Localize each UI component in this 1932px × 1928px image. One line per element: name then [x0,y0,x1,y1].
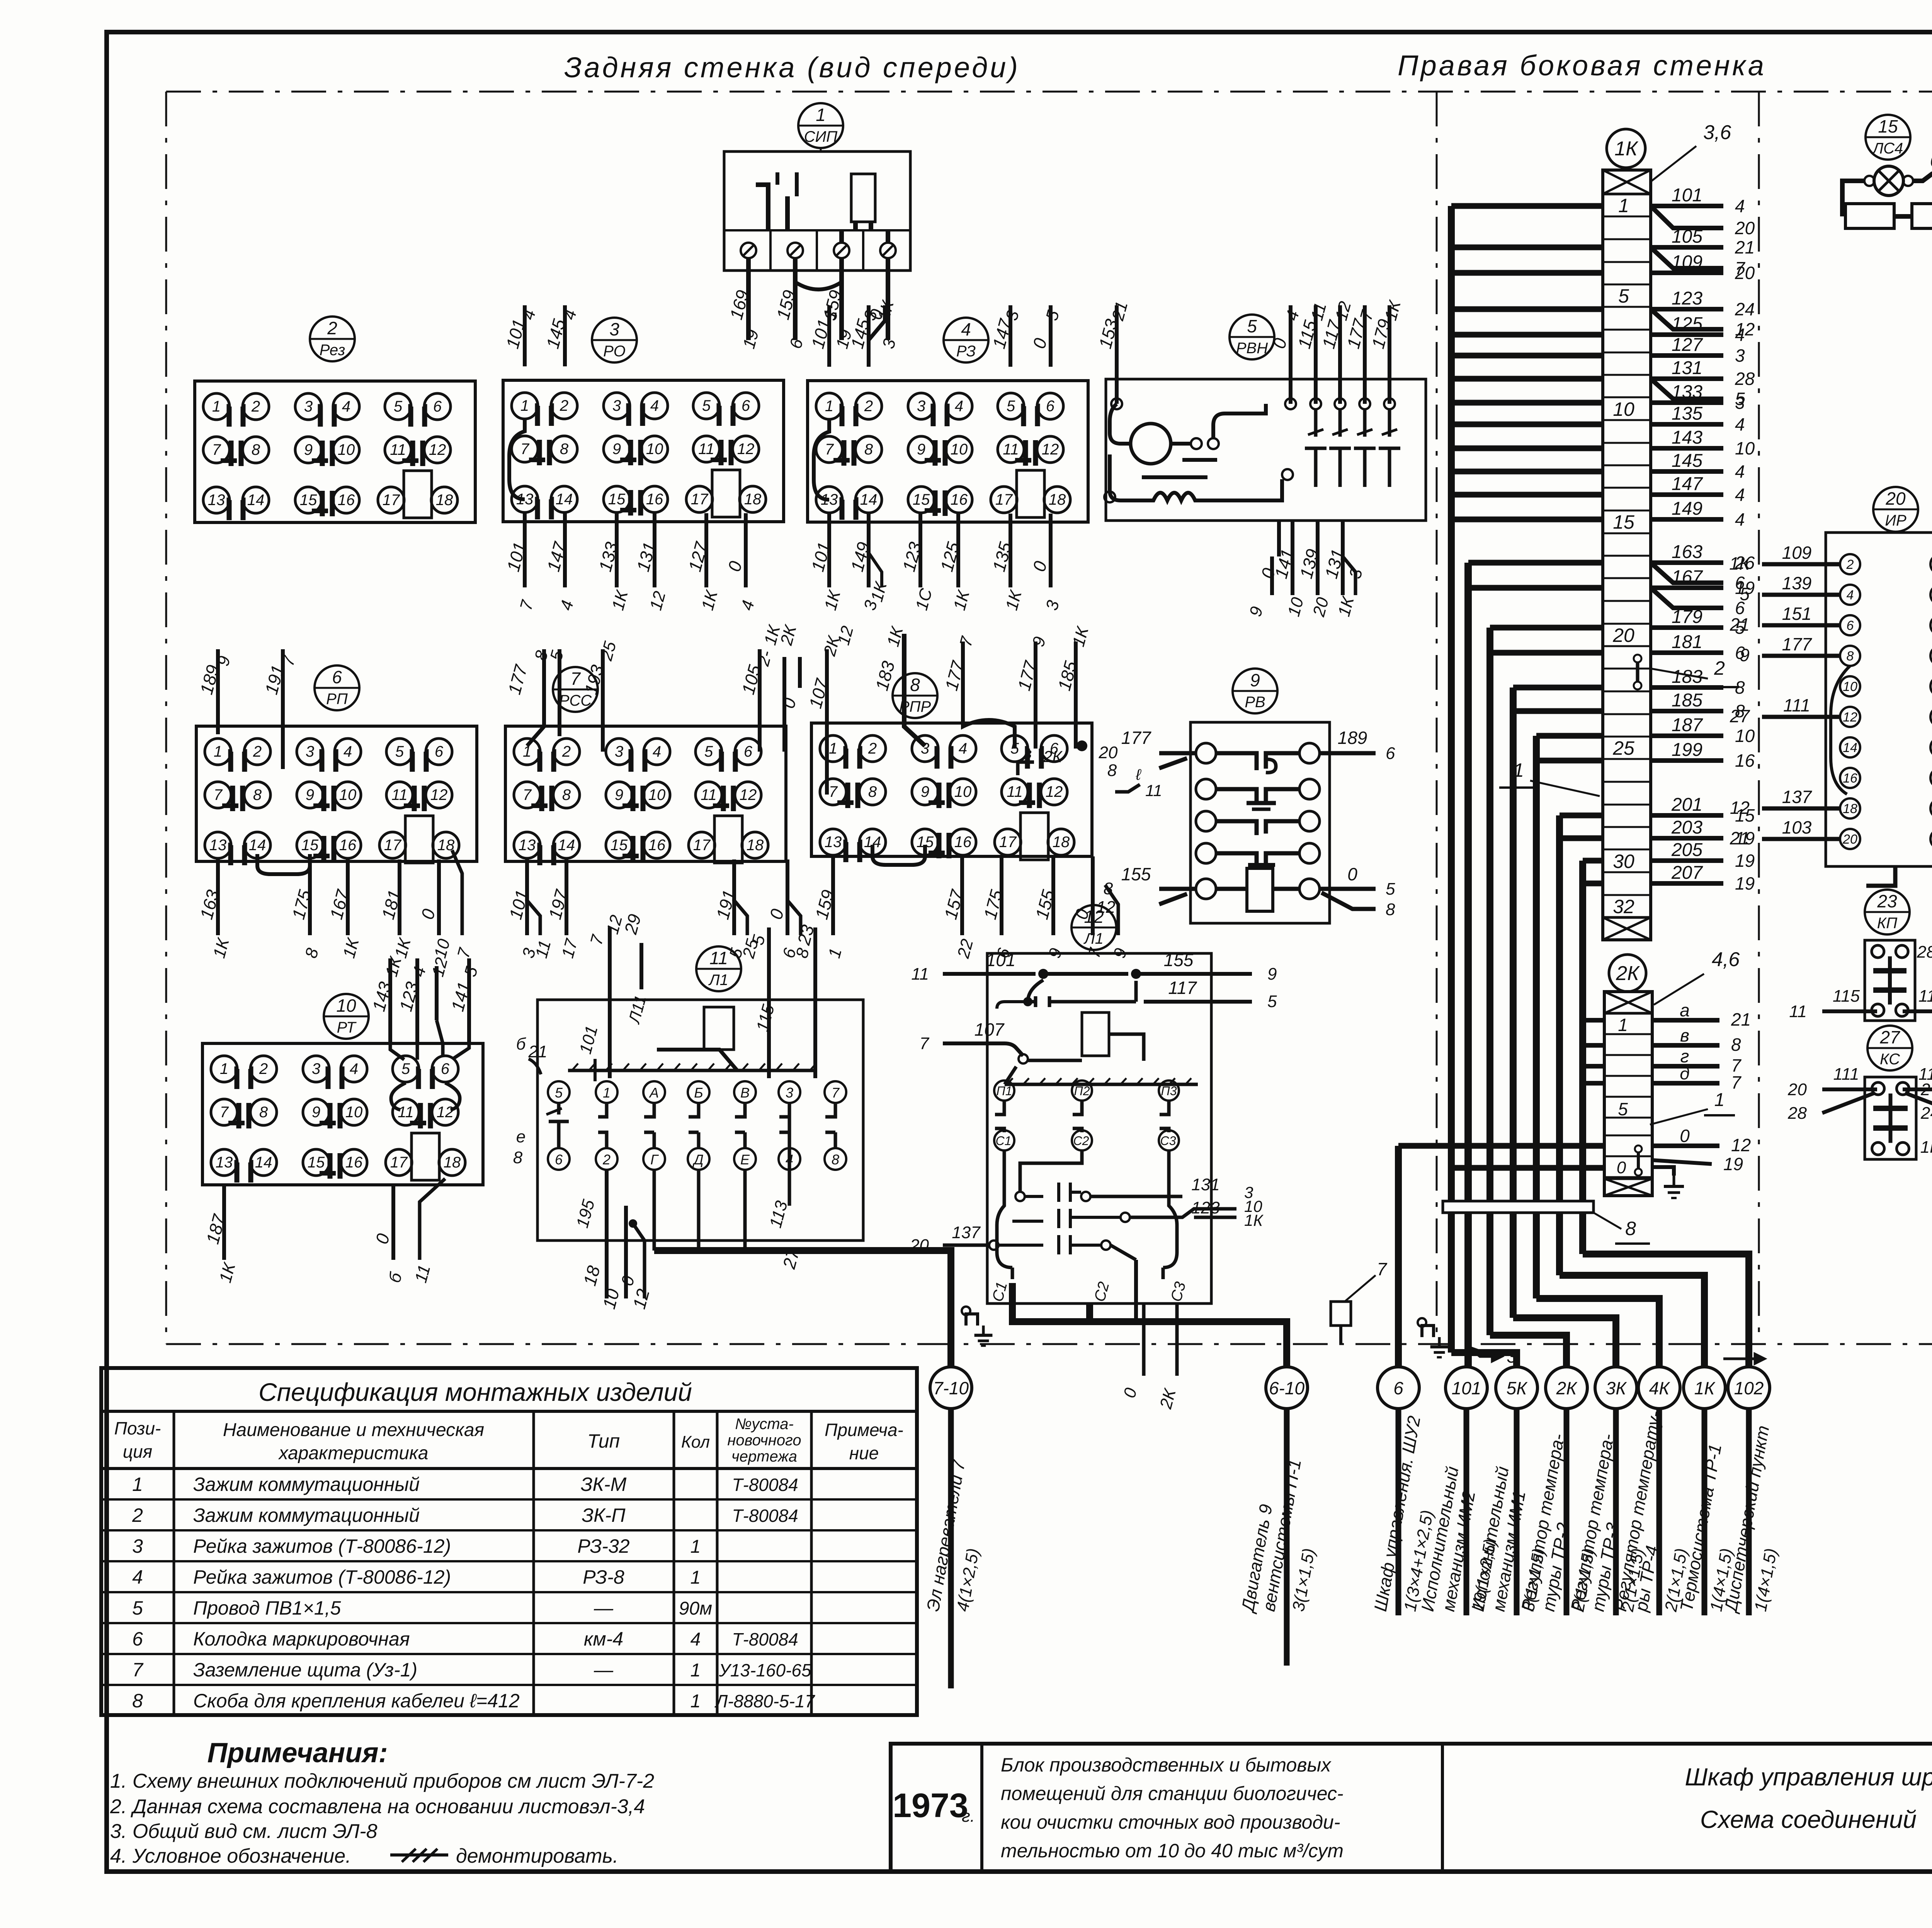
svg-text:5: 5 [1618,1099,1628,1119]
relay Рез pins 13-14 [203,487,230,513]
svg-text:2: 2 [864,398,873,415]
relay РО (3) body [503,380,784,522]
relay РО pins 15-16 [604,486,630,512]
svg-text:10: 10 [1735,726,1755,746]
svg-text:—: — [594,1659,614,1681]
svg-text:8: 8 [1625,1218,1636,1239]
1К strip row dividers [1603,193,1651,195]
svg-text:1К: 1К [1244,1211,1264,1229]
svg-text:тельностью от 10 до 40: тельностью от 10 до 40 тыс м³/сут [1001,1840,1344,1862]
svg-text:9: 9 [1250,670,1260,690]
svg-text:24: 24 [1920,1104,1932,1123]
svg-text:11: 11 [1007,783,1023,800]
long cross feeds into 2К [1398,1143,1604,1149]
КП wires [1822,1009,1877,1013]
svg-text:КП: КП [1877,915,1898,932]
svg-text:1К: 1К [1920,1138,1932,1157]
svg-text:Д: Д [692,1152,703,1167]
svg-text:125: 125 [1672,314,1702,334]
svg-text:3: 3 [1735,393,1745,413]
svg-text:11: 11 [701,786,717,803]
svg-text:5: 5 [1267,992,1277,1011]
svg-text:8: 8 [1386,900,1395,919]
svg-text:11: 11 [390,441,406,458]
svg-text:2: 2 [253,743,262,760]
svg-text:ЛС4: ЛС4 [1872,140,1903,157]
svg-text:1973: 1973 [893,1786,968,1824]
svg-text:А: А [649,1085,659,1101]
relay РО pins 5-6 [693,393,719,419]
svg-text:10: 10 [954,783,972,800]
Л1-12 bottom wires 0 2К [1142,1303,1146,1376]
ground at 6-10 bus [1422,1326,1434,1337]
relay Рез pins 5-6 [385,393,411,420]
svg-text:17: 17 [691,491,709,508]
svg-text:П1: П1 [997,1084,1012,1098]
svg-text:СИП: СИП [804,128,838,145]
cable tails below circles [948,1409,954,1688]
svg-text:207: 207 [1671,863,1703,883]
svg-text:4. Условное обозначение.: 4. Условное обозначение. [110,1845,351,1867]
svg-text:101: 101 [1672,185,1702,206]
svg-text:С2: С2 [1073,1134,1089,1148]
relay РО pins 13-14 [512,486,538,512]
svg-text:28: 28 [1787,1104,1807,1123]
svg-text:8: 8 [832,1152,839,1167]
bundle wire v1 [1448,206,1455,1353]
svg-text:Примечания:: Примечания: [207,1737,388,1768]
relay РО coil [712,470,740,517]
svg-text:20: 20 [1842,832,1857,847]
svg-text:в: в [1680,1025,1689,1045]
svg-text:9: 9 [312,1104,320,1121]
1К strip right stubs [1651,204,1723,208]
Л1-11 bottom wires [605,1170,609,1298]
relay РЗ pins 3-4 [908,393,934,419]
starter Л1 (11) body [537,1000,863,1241]
svg-text:2: 2 [327,318,337,338]
svg-text:23: 23 [1877,891,1897,911]
svg-text:3: 3 [609,319,619,339]
lamp ЛС4 wiring [1842,181,1864,216]
svg-text:1: 1 [1618,195,1629,216]
svg-text:17: 17 [390,1154,408,1171]
РВН motor circle [1131,424,1171,464]
svg-text:10: 10 [1843,679,1857,694]
svg-text:1: 1 [690,1567,701,1588]
svg-text:13: 13 [208,492,225,509]
relay РП pins 15-16 [297,832,323,858]
svg-text:Шкаф управления шрт.: Шкаф управления шрт. [1685,1763,1932,1791]
Л1-12 С1 С2 С3 bottom leads [1011,1268,1014,1279]
svg-text:9: 9 [612,441,621,458]
svg-text:12: 12 [1084,907,1104,927]
svg-text:11: 11 [698,441,714,458]
svg-text:Пози-: Пози- [114,1418,161,1438]
svg-text:8: 8 [560,441,569,458]
svg-text:3. Общий вид см. лист ЭЛ-: 3. Общий вид см. лист ЭЛ-8 [110,1820,378,1843]
svg-text:109: 109 [1782,543,1812,563]
svg-text:1: 1 [690,1691,701,1712]
svg-text:10: 10 [1613,398,1634,420]
svg-text:11: 11 [1789,1002,1807,1021]
svg-text:15: 15 [913,491,930,508]
relay РСС pins 9-10 [606,782,632,808]
relay РО pins 1-2 [512,393,538,419]
svg-text:У13-160-65: У13-160-65 [718,1660,811,1680]
svg-text:П3: П3 [1161,1084,1177,1098]
svg-text:5: 5 [395,743,404,760]
svg-text:е: е [516,1127,526,1146]
svg-text:12: 12 [737,441,755,458]
svg-text:1: 1 [690,1660,701,1681]
svg-text:4,6: 4,6 [1712,948,1740,971]
svg-text:12: 12 [1046,783,1063,800]
СИП terminal wires down [746,258,751,340]
svg-text:6: 6 [1393,1378,1403,1398]
terminal strip 1К designator [1607,129,1645,168]
svg-text:32: 32 [1613,896,1634,917]
section divider right wall / door [1758,92,1760,1344]
ИР left wires [1762,562,1840,567]
svg-text:4: 4 [1735,485,1745,505]
РТ top wires [388,958,392,1043]
terminal strip 2К designator [1609,955,1646,992]
РСС wires 105 0 107 right [758,649,762,752]
svg-text:9: 9 [921,783,929,800]
svg-text:Л1: Л1 [1083,930,1104,947]
svg-text:11: 11 [398,1104,414,1121]
svg-text:131: 131 [1672,358,1702,378]
relay РТ pins 17-18 [386,1149,412,1176]
svg-text:9: 9 [304,441,313,458]
svg-text:1. Схему внешних подключени: 1. Схему внешних подключений приборов см… [110,1770,654,1792]
svg-text:Примеча-: Примеча- [825,1420,903,1440]
button КС (27) designator [1867,1026,1912,1070]
svg-text:16: 16 [646,491,663,508]
svg-text:147: 147 [1672,474,1703,494]
РТ internal loop 5-11 6-12 [391,1083,406,1110]
svg-text:Колодка маркировочная: Колодка маркировочная [193,1628,410,1650]
cable clamp 8 bar [1443,1201,1594,1213]
svg-text:3: 3 [304,398,313,415]
svg-text:11: 11 [709,948,728,968]
Л1-11 aux pins 1 2 [596,1081,617,1103]
svg-text:2: 2 [1846,557,1854,572]
svg-text:15: 15 [301,837,319,854]
svg-text:7: 7 [570,669,581,689]
svg-text:20: 20 [1787,1080,1807,1099]
РЗ top wires [827,305,831,367]
СИП lamp rectangle [851,174,875,222]
svg-text:21: 21 [1731,1009,1751,1030]
svg-text:107: 107 [975,1019,1005,1040]
svg-text:16: 16 [339,837,357,854]
svg-text:9: 9 [1740,645,1750,665]
relay РО pins 9-10 [604,436,630,462]
relay РПР pins 17-18 [995,829,1021,855]
РО bottom wires [523,513,527,587]
svg-text:б: б [516,1035,527,1053]
svg-text:7: 7 [825,441,834,458]
svg-text:127: 127 [1672,335,1703,355]
svg-text:19: 19 [1735,873,1755,893]
spec table header [173,1411,175,1715]
svg-text:205: 205 [1671,840,1702,860]
svg-text:5: 5 [1740,584,1750,604]
РТ wires into pins 5 6 [390,1043,404,1060]
svg-text:20: 20 [1885,488,1906,509]
svg-text:9: 9 [1267,965,1277,984]
svg-text:Заземление щита (Уз-1): Заземление щита (Уз-1) [193,1659,417,1681]
relay РСС pins 7-8 [514,782,540,808]
svg-text:8: 8 [562,786,571,803]
svg-text:20: 20 [910,1236,929,1255]
svg-text:16: 16 [345,1154,363,1171]
svg-text:4: 4 [959,740,967,757]
svg-text:14: 14 [255,1154,272,1171]
svg-text:155: 155 [1164,950,1194,970]
svg-text:181: 181 [1672,632,1702,652]
relay РТ pins 15-16 [303,1149,329,1176]
svg-text:13: 13 [825,834,842,851]
svg-text:123: 123 [1191,1198,1220,1217]
svg-text:163: 163 [1672,542,1702,562]
РО top wires 101 145 [523,305,527,366]
svg-text:28: 28 [1917,943,1932,961]
РВН top wires [1115,305,1119,404]
relay РП pins 9-10 [297,782,323,808]
svg-text:Блок производственных и бы: Блок производственных и бытовых [1001,1754,1332,1776]
svg-text:4: 4 [690,1629,701,1650]
spec row 2 [101,1498,917,1501]
1К strip callout 1 [1530,781,1600,796]
svg-text:18: 18 [1049,491,1066,508]
relay РСС pins 13-14 [514,832,540,858]
relay РЗ pins 13-14 [816,487,842,513]
relay Рез (2) body [195,381,475,522]
relay РТ coil [412,1133,439,1180]
svg-text:149: 149 [1672,499,1702,519]
svg-text:4: 4 [961,319,971,339]
Л1-11 poles down to thick bus [653,1170,656,1251]
svg-text:20: 20 [1612,625,1634,646]
РПР bottom wires [831,856,835,935]
СИП jumper terminal2-terminal3 [795,258,842,289]
svg-text:0: 0 [1617,1158,1626,1177]
svg-text:21: 21 [1730,614,1750,635]
relay РП pins 5-6 [386,739,413,765]
relay РЗ pins 7-8 [816,436,842,463]
svg-text:8: 8 [259,1104,268,1121]
relay РТ pins 1-2 [211,1056,237,1082]
relay РЗ designator circle [944,318,988,362]
svg-text:ция: ция [123,1441,152,1462]
svg-text:15: 15 [1613,511,1634,533]
svg-text:199: 199 [1672,740,1702,760]
svg-text:101: 101 [986,950,1016,970]
svg-text:1К: 1К [1614,138,1639,160]
РВН designator circle [1230,315,1274,359]
svg-text:РЗ-32: РЗ-32 [577,1535,629,1557]
svg-text:3: 3 [615,743,623,760]
wire thick bus Л1-12 to 6-10 [1012,1283,1287,1368]
relay РТ pins 13-14 [211,1149,237,1176]
svg-text:20: 20 [1735,218,1755,238]
relay РЗ pins 17-18 [991,487,1017,513]
svg-text:РЗ: РЗ [956,343,976,360]
svg-text:6: 6 [1046,398,1055,415]
svg-text:Рез: Рез [320,342,345,359]
2К ground [1652,1167,1674,1176]
svg-text:Кол: Кол [681,1433,710,1452]
svg-text:16: 16 [1735,750,1755,771]
svg-text:15: 15 [300,492,317,509]
svg-text:103: 103 [1782,817,1812,837]
relay РП (6) body [196,726,477,861]
spec row 5 [101,1591,917,1593]
cable circle 7-10 [930,1367,972,1409]
svg-text:12: 12 [740,786,757,803]
svg-text:177: 177 [1782,634,1812,654]
svg-text:Правая боковая стенка: Правая боковая стенка [1398,49,1766,82]
relay Рез pins 15-16 [295,487,321,513]
svg-text:185: 185 [1672,690,1702,711]
РВ designator circle [1233,669,1277,713]
svg-text:15: 15 [1878,116,1898,136]
svg-text:3К: 3К [1606,1378,1628,1398]
svg-text:3: 3 [786,1085,793,1101]
svg-text:6: 6 [1386,744,1395,763]
section divider back wall / right wall [1436,92,1438,1344]
svg-text:3: 3 [132,1535,143,1557]
relay РЗ pins 1-2 [816,393,842,419]
svg-text:105: 105 [1672,226,1702,247]
svg-text:С3: С3 [1160,1134,1176,1148]
svg-text:14: 14 [247,492,265,509]
svg-text:4: 4 [1735,196,1745,216]
relay Рез pins 7-8 [203,437,230,463]
lamp ЛС4 (15) designator [1866,115,1910,160]
svg-text:4: 4 [650,397,659,414]
svg-text:187: 187 [1672,715,1703,735]
svg-text:РВН: РВН [1236,340,1268,357]
relay РПР pins 5-6 [1002,735,1028,762]
svg-text:КС: КС [1880,1051,1900,1068]
spec row 4 [101,1560,917,1562]
svg-text:РТ: РТ [337,1019,357,1036]
svg-text:Е: Е [740,1152,750,1167]
svg-text:10: 10 [336,995,356,1016]
svg-text:Г: Г [650,1152,659,1167]
svg-text:27: 27 [1879,1027,1900,1047]
svg-text:5: 5 [1618,285,1629,307]
title block frame [891,1744,1932,1872]
svg-text:15: 15 [608,491,626,508]
bundle branches into 1К strip [1451,203,1603,209]
svg-text:151: 151 [1782,604,1812,624]
svg-text:111: 111 [1833,1065,1859,1084]
relay РТ pins 5-6 [393,1056,419,1082]
svg-text:РЗ-8: РЗ-8 [583,1566,624,1588]
svg-text:18: 18 [436,492,453,509]
svg-text:12: 12 [437,1104,454,1121]
svg-text:10: 10 [648,786,666,803]
2К callout 1 [1650,1109,1708,1125]
РП bridge pin14-15 [257,854,310,874]
svg-text:Наименование и техническая: Наименование и техническая [223,1420,484,1440]
svg-text:Зажим коммутационный: Зажим коммутационный [193,1504,420,1526]
svg-text:16: 16 [648,837,666,854]
bundle wire v6 [1556,815,1563,1275]
svg-text:Л1: Л1 [708,972,728,989]
svg-text:Задняя стенка (вид спереди: Задняя стенка (вид спереди) [564,51,1020,83]
svg-text:1: 1 [520,397,529,414]
svg-text:203: 203 [1671,817,1702,838]
svg-text:в: в [1024,745,1032,762]
СИП designator circle [798,103,843,148]
svg-text:8: 8 [132,1690,143,1712]
svg-text:189: 189 [1338,728,1367,748]
svg-text:15: 15 [308,1154,325,1171]
relay РТ pins 7-8 [211,1099,237,1125]
relay РПР pins 15-16 [912,829,938,855]
svg-text:2К: 2К [1616,962,1640,985]
svg-text:ние: ние [849,1443,879,1463]
svg-text:19: 19 [1735,851,1755,871]
РВ left wires [1159,753,1196,768]
relay РП designator circle [315,665,359,710]
РЗ fork 145-1К [869,305,885,340]
arrow 3 near 101 [1466,1345,1502,1361]
svg-text:5: 5 [702,397,711,414]
svg-text:2: 2 [560,397,568,414]
relay Рез pins 9-10 [295,437,321,463]
svg-text:20: 20 [1735,263,1755,283]
relay РПР pins 11-12 [1002,779,1028,805]
svg-text:ℓ: ℓ [1136,766,1142,783]
svg-text:11: 11 [391,786,408,803]
svg-text:Рейка зажитов (Т-80086-12): Рейка зажитов (Т-80086-12) [193,1535,451,1557]
svg-text:д: д [1680,1063,1689,1083]
relay Рез pins 1-2 [203,393,230,420]
svg-text:28: 28 [1735,369,1755,389]
Л1-12 hatched bus [1005,1083,1198,1086]
relay РПР pins 1-2 [820,735,846,762]
svg-text:13: 13 [209,837,227,854]
cable circle 101 [1446,1367,1487,1409]
svg-text:5: 5 [394,398,403,415]
РПР row2 stub labels [1018,762,1034,775]
svg-text:9: 9 [917,441,925,458]
svg-text:1: 1 [220,1060,228,1077]
svg-text:Б: Б [694,1085,703,1101]
svg-text:11: 11 [1145,781,1162,800]
svg-text:2К: 2К [1043,747,1063,766]
svg-text:17: 17 [384,837,402,854]
svg-text:14: 14 [249,837,266,854]
svg-text:102: 102 [1734,1378,1764,1398]
svg-text:17: 17 [383,492,400,509]
svg-text:3: 3 [306,743,314,760]
svg-text:3,6: 3,6 [1703,121,1731,144]
svg-text:РП: РП [326,691,348,708]
svg-text:7: 7 [214,786,223,803]
svg-text:179: 179 [1672,607,1702,627]
relay РПР pins 3-4 [912,735,938,762]
clamp 7 callout [1331,1302,1351,1326]
relay РТ pins 3-4 [303,1056,329,1082]
